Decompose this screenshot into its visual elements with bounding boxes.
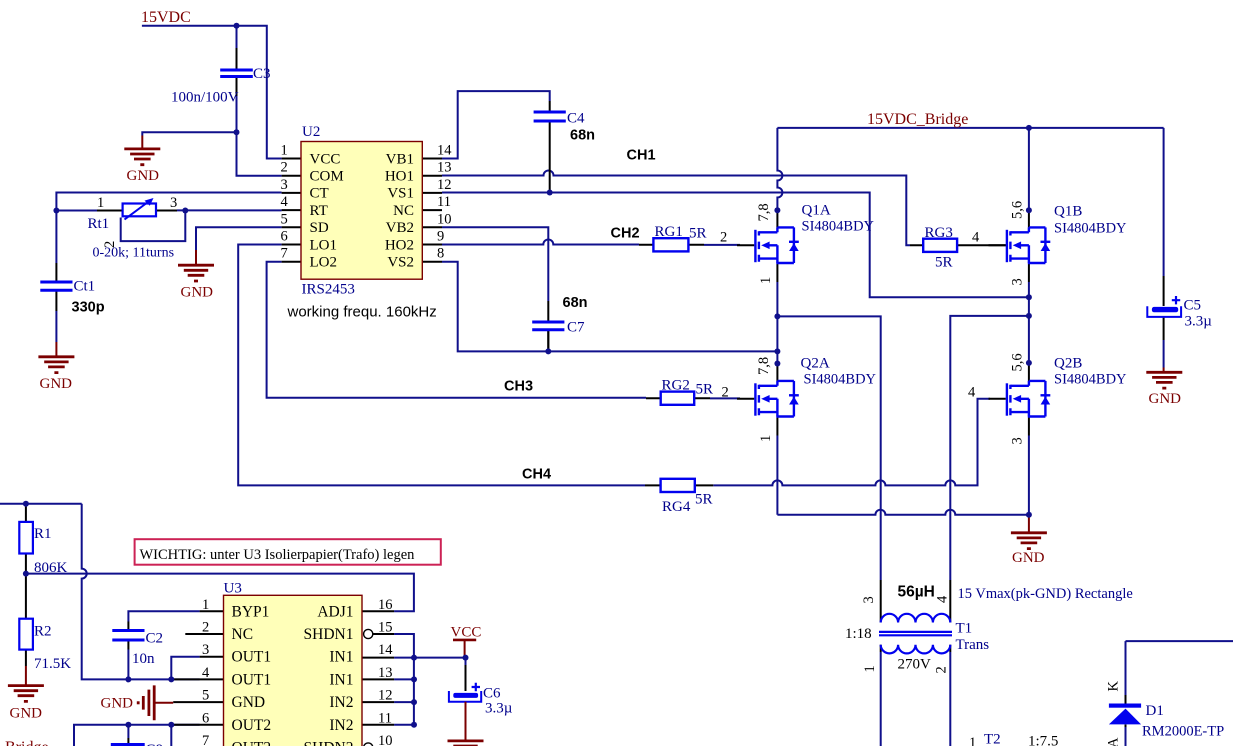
svg-text:1: 1 bbox=[202, 597, 209, 613]
U3 pin 16 stub bbox=[362, 610, 394, 612]
svg-text:NC: NC bbox=[232, 626, 254, 643]
svg-text:SHDN2: SHDN2 bbox=[304, 740, 354, 746]
capacitor C3 bbox=[220, 70, 253, 77]
svg-text:NC: NC bbox=[393, 203, 414, 219]
svg-text:R2: R2 bbox=[34, 624, 52, 640]
svg-text:8: 8 bbox=[437, 246, 444, 262]
svg-text:2: 2 bbox=[722, 385, 729, 401]
svg-text:4: 4 bbox=[202, 665, 210, 681]
wire Ct1 top bbox=[55, 211, 57, 264]
wire VB1 to C4 (U2 pin14) bbox=[442, 91, 550, 158]
wire T1 secondary pin2 down bbox=[949, 652, 951, 746]
wire ADJ1 net from divider bbox=[26, 574, 414, 612]
svg-text:R1: R1 bbox=[34, 526, 52, 542]
U3 pin 6 stub bbox=[173, 724, 224, 726]
capacitor C5 polarized bbox=[1147, 296, 1181, 317]
wire C3 bottom to COM bbox=[237, 96, 282, 176]
svg-text:3: 3 bbox=[202, 642, 209, 658]
wire C5 riser from bridge rail bbox=[1163, 128, 1165, 276]
svg-text:7,8: 7,8 bbox=[756, 203, 772, 221]
svg-text:OUT1: OUT1 bbox=[232, 649, 272, 666]
Rt1 pin leads bbox=[97, 210, 177, 212]
wire CH2 HO2 to RG1 with hop bbox=[442, 240, 639, 245]
svg-text:IN1: IN1 bbox=[329, 649, 353, 666]
transformer T1 core bbox=[879, 632, 952, 635]
U2 pin 14 stub bbox=[422, 158, 442, 160]
svg-text:806K: 806K bbox=[34, 560, 68, 576]
svg-text:C5: C5 bbox=[1184, 298, 1202, 314]
potentiometer Rt1 bbox=[123, 198, 156, 220]
RG2 pin leads bbox=[646, 397, 710, 399]
svg-text:LO1: LO1 bbox=[310, 237, 338, 253]
svg-text:1: 1 bbox=[97, 195, 104, 211]
svg-text:10n: 10n bbox=[132, 651, 155, 667]
svg-text:2: 2 bbox=[202, 620, 209, 636]
wire VS1 (U2 pin12) to Q1B source rail bbox=[442, 193, 1029, 298]
wire Ct1 bottom to GND bbox=[55, 311, 57, 342]
RG3 pin leads bbox=[910, 244, 1007, 246]
C3 pin leads bbox=[236, 48, 238, 96]
U3 pin 11 stub bbox=[362, 724, 394, 726]
svg-text:ADJ1: ADJ1 bbox=[317, 603, 353, 620]
svg-text:5R: 5R bbox=[935, 255, 953, 271]
svg-text:Q1B: Q1B bbox=[1054, 204, 1082, 220]
U2 pin 12 stub bbox=[422, 192, 442, 194]
wire OUT column down bbox=[170, 725, 172, 746]
svg-text:14: 14 bbox=[378, 642, 393, 658]
svg-text:5,6: 5,6 bbox=[1010, 201, 1026, 219]
wire IN1 row13 bbox=[394, 678, 414, 680]
svg-text:Trans: Trans bbox=[956, 637, 990, 653]
wire IN2 row12 bbox=[394, 701, 414, 703]
C7 pin leads bbox=[547, 301, 549, 351]
wire C2 column down to C8 bbox=[127, 725, 129, 738]
svg-text:BYP1: BYP1 bbox=[232, 603, 270, 620]
svg-text:COM: COM bbox=[310, 169, 344, 185]
wire Q1A source to VS2 node and Q2A drain bbox=[776, 282, 778, 364]
resistor RG4 bbox=[661, 479, 695, 492]
wire T1 pin4 riser bbox=[950, 316, 1029, 580]
U2 pin 6 stub bbox=[282, 244, 301, 246]
U2 pin 1 stub bbox=[282, 158, 301, 160]
wire C2 bottom to OUT1 rail bbox=[127, 650, 129, 680]
svg-text:5,6: 5,6 bbox=[1010, 353, 1026, 371]
svg-text:4: 4 bbox=[968, 385, 976, 401]
wire D1 bottom bbox=[1125, 727, 1127, 746]
svg-text:2: 2 bbox=[281, 160, 288, 176]
resistor R2 bbox=[19, 619, 33, 650]
svg-text:270V: 270V bbox=[898, 657, 932, 673]
resistor R1 bbox=[19, 522, 33, 554]
svg-text:11: 11 bbox=[378, 710, 392, 726]
resistor RG2 bbox=[661, 392, 695, 405]
wire left riser to U3 OUT1 rail with hop bbox=[82, 504, 200, 680]
svg-text:3.3µ: 3.3µ bbox=[1185, 314, 1213, 330]
svg-text:T2: T2 bbox=[984, 732, 1001, 746]
T1 pin 2 lead bbox=[949, 645, 951, 652]
transformer T1 secondary winding bbox=[881, 645, 951, 654]
U3 pin 4 stub bbox=[173, 678, 224, 680]
U3 pin 5 stub bbox=[173, 701, 223, 703]
U3 pin 2 stub NC bbox=[185, 633, 223, 635]
svg-text:RM2000E-TP: RM2000E-TP bbox=[1142, 724, 1224, 740]
svg-text:100n/100V: 100n/100V bbox=[171, 90, 239, 106]
svg-text:5R: 5R bbox=[689, 226, 707, 242]
svg-text:VS2: VS2 bbox=[387, 255, 414, 271]
U3 pin 15 stub bbox=[373, 633, 394, 635]
R1 pin leads bbox=[25, 504, 27, 574]
wire IN2 row11 bbox=[394, 724, 414, 726]
svg-text:CT: CT bbox=[310, 186, 329, 202]
capacitor C8 partial bbox=[111, 743, 145, 746]
svg-text:HO2: HO2 bbox=[385, 237, 414, 253]
wire RT net left of pot bbox=[56, 210, 97, 212]
svg-text:9: 9 bbox=[437, 229, 444, 245]
D1 pin leads bbox=[1125, 695, 1127, 727]
svg-text:C7: C7 bbox=[567, 320, 585, 336]
svg-text:1:7.5: 1:7.5 bbox=[1028, 734, 1058, 746]
wire C3 top branch bbox=[236, 26, 238, 48]
svg-text:SI4804BDY: SI4804BDY bbox=[802, 219, 875, 235]
wire Rt1 wiper loop bbox=[121, 211, 186, 242]
svg-text:Q1A: Q1A bbox=[802, 203, 831, 219]
wire D1 top bbox=[1125, 641, 1127, 695]
svg-text:16: 16 bbox=[378, 597, 393, 613]
svg-text:SI4804BDY: SI4804BDY bbox=[804, 372, 877, 388]
svg-text:1: 1 bbox=[281, 143, 288, 159]
svg-text:GND: GND bbox=[232, 694, 266, 711]
ground symbol at C3 bbox=[124, 136, 160, 165]
U3 pin 14 stub bbox=[362, 657, 394, 659]
svg-text:3.3µ: 3.3µ bbox=[485, 701, 513, 717]
Ct1 pin leads bbox=[55, 263, 57, 311]
svg-text:0-20k; 11turns: 0-20k; 11turns bbox=[93, 246, 175, 261]
RG4 pin leads bbox=[645, 484, 713, 486]
svg-text:OUT2: OUT2 bbox=[232, 717, 272, 734]
svg-text:68n: 68n bbox=[570, 128, 595, 144]
svg-text:15VDC_Bridge: 15VDC_Bridge bbox=[867, 111, 968, 128]
svg-text:IN2: IN2 bbox=[329, 694, 353, 711]
net 15VDC_Bridge top rail bbox=[777, 127, 1163, 129]
svg-text:GND: GND bbox=[40, 376, 73, 392]
ground symbol at C6 bbox=[448, 702, 484, 746]
svg-text:Q2A: Q2A bbox=[801, 356, 830, 372]
svg-text:15: 15 bbox=[378, 620, 393, 636]
RG1 pin leads bbox=[639, 244, 704, 246]
wire BYP1 to C2 bbox=[128, 611, 199, 621]
C8 pin lead bbox=[127, 738, 129, 744]
U3 pin 3 stub bbox=[200, 656, 224, 658]
capacitor C7 bbox=[532, 322, 564, 330]
wire RT net right of pot to U2 pin4 bbox=[177, 209, 282, 211]
wire Q2B source down to GND node bbox=[1028, 436, 1030, 515]
svg-text:OUT2: OUT2 bbox=[232, 740, 272, 746]
svg-text:T1: T1 bbox=[956, 621, 973, 637]
wire LO1 to CH4 (U2 pin6) bbox=[238, 245, 645, 486]
svg-text:5: 5 bbox=[202, 688, 209, 704]
wire Q1B source down to node bbox=[1028, 282, 1030, 297]
svg-text:GND: GND bbox=[1012, 550, 1045, 566]
svg-text:RG1: RG1 bbox=[655, 224, 683, 240]
U3 pin 12 stub bbox=[362, 701, 394, 703]
svg-text:U2: U2 bbox=[302, 124, 320, 140]
capacitor Ct1 bbox=[40, 282, 72, 290]
svg-text:C8: C8 bbox=[146, 742, 164, 746]
svg-text:C2: C2 bbox=[146, 631, 164, 647]
svg-text:WICHTIG: unter U3 Isolierpapie: WICHTIG: unter U3 Isolierpapier(Trafo) l… bbox=[140, 547, 416, 563]
IC U2 IRS2453 body bbox=[301, 142, 422, 280]
svg-text:3: 3 bbox=[1010, 278, 1026, 285]
U3 pin 13 stub bbox=[362, 678, 394, 680]
U2 pin 7 stub bbox=[282, 261, 301, 263]
T1 pin 4 lead bbox=[949, 580, 951, 623]
svg-text:13: 13 bbox=[437, 160, 452, 176]
wire Q2A source to GND rail with hops bbox=[777, 510, 1029, 515]
svg-text:IRS2453: IRS2453 bbox=[302, 282, 355, 298]
wire SHDN1 to IN rail bbox=[394, 634, 414, 725]
svg-text:SI4804BDY: SI4804BDY bbox=[1054, 221, 1127, 237]
capacitor C6 polarized bbox=[449, 683, 481, 702]
svg-text:4: 4 bbox=[935, 595, 951, 603]
diode D1 RM2000E-TP bbox=[1109, 704, 1141, 725]
svg-text:SI4804BDY: SI4804BDY bbox=[1054, 372, 1127, 388]
wire VS2 (U2 pin8) to bridge left mid rail bbox=[442, 262, 777, 352]
transistor Q2A SI4804BDY bbox=[737, 364, 799, 436]
pin 15 SHDN1 inverted circle bbox=[364, 629, 373, 638]
svg-text:RT: RT bbox=[310, 203, 328, 219]
ground symbol at bridge bbox=[1011, 515, 1047, 549]
svg-text:CH3: CH3 bbox=[504, 379, 533, 395]
svg-text:1: 1 bbox=[758, 277, 774, 284]
wire C7 bottom junction segment bbox=[547, 331, 549, 352]
svg-text:GND: GND bbox=[181, 285, 214, 301]
C2 pin leads bbox=[127, 622, 129, 650]
wire IN1 row14 to VCC bbox=[394, 657, 465, 659]
capacitor C2 bbox=[112, 631, 144, 641]
svg-text:7: 7 bbox=[202, 733, 209, 746]
wire Q1B drain riser bbox=[1028, 128, 1030, 211]
svg-text:5R: 5R bbox=[695, 492, 713, 508]
R2 pin leads bbox=[25, 574, 27, 666]
wire R1 top rail from left edge bbox=[0, 503, 82, 505]
svg-text:VB1: VB1 bbox=[386, 151, 414, 167]
IC U3 body bbox=[224, 595, 363, 746]
transistor Q1B SI4804BDY bbox=[989, 210, 1051, 282]
svg-text:OUT1: OUT1 bbox=[232, 671, 272, 688]
wire RG1 to Q1A gate bbox=[704, 244, 740, 246]
wire LO2 to CH3 (U2 pin7) bbox=[267, 262, 646, 398]
svg-text:CH2: CH2 bbox=[611, 226, 640, 242]
ground symbol at R2 bbox=[8, 666, 44, 701]
U2 pin 2 stub bbox=[282, 175, 301, 177]
transformer T1 primary winding bbox=[881, 614, 951, 623]
svg-text:C6: C6 bbox=[483, 686, 501, 702]
wire VCC to C6 bbox=[465, 658, 467, 665]
C4 pin leads bbox=[549, 101, 551, 193]
svg-text:2: 2 bbox=[720, 230, 727, 246]
capacitor C4 bbox=[534, 112, 566, 121]
svg-text:GND: GND bbox=[127, 168, 160, 184]
transistor Q2B SI4804BDY bbox=[989, 364, 1051, 436]
svg-text:Ct1: Ct1 bbox=[74, 279, 96, 295]
svg-text:SD: SD bbox=[310, 220, 329, 236]
svg-text:RG3: RG3 bbox=[925, 225, 953, 241]
U2 pin 9 stub bbox=[422, 244, 442, 246]
ground symbol at SD pin bbox=[178, 250, 214, 281]
transistor Q1A SI4804BDY bbox=[737, 210, 799, 282]
svg-text:6: 6 bbox=[281, 229, 288, 245]
resistor RG1 bbox=[653, 238, 688, 251]
U2 pin 3 stub bbox=[282, 192, 301, 194]
svg-text:7: 7 bbox=[281, 246, 288, 262]
node 15VDC: wire top rail bbox=[142, 26, 282, 159]
svg-text:1: 1 bbox=[969, 735, 976, 746]
wire VB2 (U2 pin10) down to C7 bbox=[442, 227, 548, 301]
svg-text:330p: 330p bbox=[72, 300, 105, 316]
U2 pin 4 stub bbox=[282, 209, 301, 211]
svg-text:Bridge: Bridge bbox=[5, 739, 49, 746]
wire HO1 to RG3 with hop over C4 lead bbox=[442, 171, 910, 246]
svg-text:CH4: CH4 bbox=[522, 467, 551, 483]
ground symbol at C5 bbox=[1146, 368, 1182, 389]
svg-text:VCC: VCC bbox=[310, 151, 341, 167]
ground symbol sideways at U3 pin5 bbox=[137, 685, 173, 720]
svg-text:7,8: 7,8 bbox=[756, 357, 772, 375]
C6 pin lead top bbox=[465, 665, 467, 691]
wire Q1A drain riser with two hops bbox=[777, 128, 782, 210]
svg-text:VCC: VCC bbox=[451, 625, 482, 641]
svg-text:6: 6 bbox=[202, 710, 209, 726]
svg-text:1:18: 1:18 bbox=[845, 626, 872, 642]
svg-text:K: K bbox=[1106, 681, 1122, 692]
power symbol VCC bbox=[453, 640, 476, 658]
svg-text:RG4: RG4 bbox=[662, 499, 691, 515]
svg-text:working frequ. 160kHz: working frequ. 160kHz bbox=[287, 304, 437, 321]
wire bridge output 1 to T1 pin3 bbox=[777, 316, 880, 580]
svg-text:12: 12 bbox=[378, 688, 393, 704]
U3 pin 1 stub bbox=[200, 610, 224, 612]
svg-text:C3: C3 bbox=[253, 66, 271, 82]
ground symbol at Ct1 bbox=[38, 342, 74, 373]
svg-text:15 Vmax(pk-GND) Rectangle: 15 Vmax(pk-GND) Rectangle bbox=[958, 586, 1133, 602]
wire GND branch from C3 node bbox=[142, 132, 236, 135]
wire bridge output 2 node to T1 pin4 bbox=[1028, 297, 1030, 363]
wire C5 bottom bbox=[1163, 340, 1165, 368]
wire CT net (U2 pin3) bbox=[56, 193, 281, 211]
svg-text:14: 14 bbox=[437, 143, 452, 159]
svg-text:U3: U3 bbox=[224, 581, 242, 597]
svg-text:D1: D1 bbox=[1146, 703, 1164, 719]
note box WICHTIG bbox=[135, 539, 441, 565]
svg-text:4: 4 bbox=[972, 230, 980, 246]
svg-text:3: 3 bbox=[170, 195, 177, 211]
wire Q2A source down bbox=[776, 436, 778, 515]
wire OUT2 row6 rail bbox=[74, 725, 200, 746]
svg-text:12: 12 bbox=[437, 177, 452, 193]
svg-text:10: 10 bbox=[378, 733, 393, 746]
svg-text:68n: 68n bbox=[563, 295, 588, 311]
svg-text:C4: C4 bbox=[567, 111, 585, 127]
svg-text:CH1: CH1 bbox=[627, 148, 656, 164]
svg-text:5R: 5R bbox=[696, 382, 714, 398]
wire RG2 to Q2A gate bbox=[710, 397, 740, 399]
svg-text:IN2: IN2 bbox=[329, 717, 353, 734]
svg-text:GND: GND bbox=[101, 696, 134, 712]
C5 pin leads bbox=[1163, 276, 1165, 340]
svg-text:10: 10 bbox=[437, 211, 452, 227]
svg-text:4: 4 bbox=[281, 194, 289, 210]
svg-text:5: 5 bbox=[281, 211, 288, 227]
svg-text:SHDN1: SHDN1 bbox=[304, 626, 354, 643]
svg-text:56µH: 56µH bbox=[898, 584, 935, 601]
svg-text:LO2: LO2 bbox=[310, 255, 338, 271]
wire D1 cathode net to right edge bbox=[1126, 640, 1233, 642]
svg-text:Q2B: Q2B bbox=[1054, 356, 1082, 372]
U2 pin 11 stub bbox=[422, 209, 442, 211]
wire T1 secondary pin1 down bbox=[880, 652, 882, 746]
svg-text:VS1: VS1 bbox=[387, 186, 414, 202]
wire SD to GND (U2 pin5) bbox=[196, 227, 282, 250]
svg-text:3: 3 bbox=[861, 596, 877, 603]
svg-text:VB2: VB2 bbox=[386, 220, 414, 236]
svg-text:HO1: HO1 bbox=[385, 169, 414, 185]
svg-text:Rt1: Rt1 bbox=[88, 216, 110, 232]
svg-text:3: 3 bbox=[281, 177, 288, 193]
wire RG4 output to Q2B gate with three hops bbox=[713, 399, 990, 486]
svg-text:13: 13 bbox=[378, 665, 393, 681]
svg-text:IN1: IN1 bbox=[329, 671, 353, 688]
svg-text:RG2: RG2 bbox=[662, 378, 690, 394]
svg-text:3: 3 bbox=[1010, 437, 1026, 444]
T1 pin 3 lead bbox=[880, 580, 882, 623]
svg-text:15VDC: 15VDC bbox=[141, 9, 191, 26]
svg-text:2: 2 bbox=[934, 666, 950, 673]
svg-text:71.5K: 71.5K bbox=[34, 656, 71, 672]
svg-text:11: 11 bbox=[437, 194, 451, 210]
svg-text:GND: GND bbox=[10, 706, 43, 722]
wire OUT1 pin3 drop bbox=[171, 657, 199, 680]
T1 pin 1 lead bbox=[880, 645, 882, 652]
U2 pin 13 stub bbox=[422, 175, 442, 177]
U2 pin 10 stub bbox=[422, 226, 442, 228]
resistor RG3 bbox=[923, 239, 957, 252]
svg-text:GND: GND bbox=[1149, 391, 1182, 407]
pin 10 SHDN2 inverted circle partial bbox=[364, 743, 373, 746]
svg-text:1: 1 bbox=[862, 665, 878, 672]
U2 pin 8 stub bbox=[422, 261, 442, 263]
svg-text:1: 1 bbox=[758, 435, 774, 442]
svg-text:A: A bbox=[1106, 737, 1122, 746]
U2 pin 5 stub bbox=[282, 226, 301, 228]
